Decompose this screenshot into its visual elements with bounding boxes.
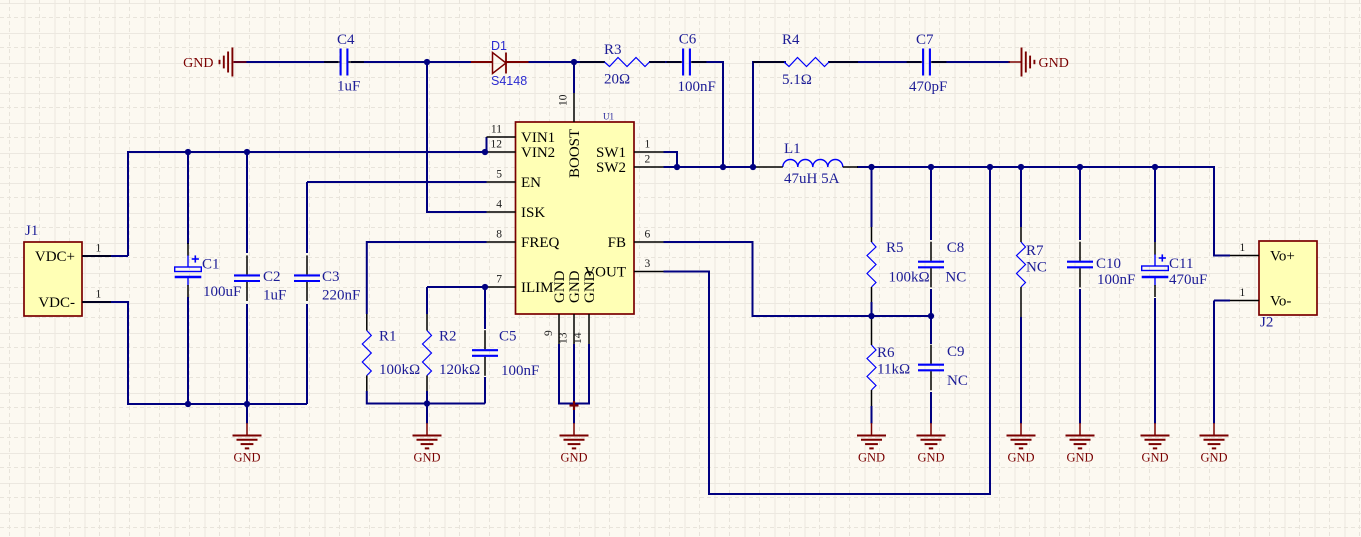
svg-text:R3: R3 bbox=[604, 42, 622, 58]
svg-text:GND: GND bbox=[560, 451, 587, 465]
svg-text:GND: GND bbox=[582, 270, 598, 303]
svg-text:ILIM: ILIM bbox=[521, 280, 554, 296]
svg-text:10: 10 bbox=[558, 94, 570, 106]
svg-text:C10: C10 bbox=[1096, 256, 1121, 272]
svg-text:7: 7 bbox=[496, 274, 502, 286]
svg-text:13: 13 bbox=[557, 332, 569, 344]
svg-text:4: 4 bbox=[496, 199, 502, 211]
svg-text:3: 3 bbox=[645, 258, 651, 270]
svg-text:11: 11 bbox=[491, 124, 502, 136]
svg-text:VIN1: VIN1 bbox=[521, 130, 555, 146]
svg-text:1: 1 bbox=[96, 243, 102, 255]
svg-text:100kΩ: 100kΩ bbox=[889, 270, 930, 286]
svg-text:R5: R5 bbox=[886, 240, 904, 256]
svg-text:120kΩ: 120kΩ bbox=[439, 362, 480, 378]
svg-text:C11: C11 bbox=[1169, 256, 1193, 272]
svg-text:R1: R1 bbox=[379, 329, 397, 345]
svg-text:GND: GND bbox=[552, 270, 568, 303]
svg-text:FB: FB bbox=[608, 235, 626, 251]
svg-text:EN: EN bbox=[521, 175, 541, 191]
svg-text:R2: R2 bbox=[439, 329, 457, 345]
svg-text:SW1: SW1 bbox=[596, 145, 626, 161]
svg-text:GND: GND bbox=[1007, 451, 1034, 465]
svg-text:100uF: 100uF bbox=[203, 284, 241, 300]
svg-text:GND: GND bbox=[233, 451, 260, 465]
svg-text:9: 9 bbox=[543, 330, 555, 336]
svg-text:C3: C3 bbox=[322, 269, 340, 285]
svg-text:GND: GND bbox=[1039, 56, 1069, 71]
svg-text:12: 12 bbox=[491, 139, 503, 151]
svg-text:C9: C9 bbox=[947, 344, 965, 360]
svg-text:470pF: 470pF bbox=[909, 79, 947, 95]
svg-text:1: 1 bbox=[645, 139, 651, 151]
svg-text:220nF: 220nF bbox=[322, 288, 360, 304]
svg-text:U1: U1 bbox=[603, 112, 614, 122]
svg-text:100nF: 100nF bbox=[678, 79, 716, 95]
svg-text:5: 5 bbox=[496, 169, 502, 181]
svg-text:L1: L1 bbox=[784, 141, 801, 157]
svg-text:GND: GND bbox=[858, 451, 885, 465]
svg-text:J2: J2 bbox=[1260, 315, 1273, 331]
svg-text:Vo+: Vo+ bbox=[1270, 249, 1295, 265]
svg-text:BOOST: BOOST bbox=[567, 129, 583, 178]
svg-text:C6: C6 bbox=[679, 32, 697, 48]
svg-text:6: 6 bbox=[645, 229, 651, 241]
svg-text:GND: GND bbox=[413, 451, 440, 465]
svg-text:C8: C8 bbox=[947, 240, 965, 256]
svg-text:GND: GND bbox=[183, 56, 213, 71]
svg-text:GND: GND bbox=[917, 451, 944, 465]
svg-text:SW2: SW2 bbox=[596, 160, 626, 176]
svg-text:NC: NC bbox=[945, 270, 966, 286]
svg-text:GND: GND bbox=[1200, 451, 1227, 465]
svg-text:11kΩ: 11kΩ bbox=[877, 362, 910, 378]
svg-text:C4: C4 bbox=[337, 32, 355, 48]
svg-text:GND: GND bbox=[567, 270, 583, 303]
svg-text:GND: GND bbox=[1066, 451, 1093, 465]
svg-text:ISK: ISK bbox=[521, 205, 545, 221]
svg-text:J1: J1 bbox=[25, 223, 38, 239]
svg-text:C7: C7 bbox=[916, 32, 934, 48]
svg-text:C5: C5 bbox=[499, 329, 517, 345]
svg-text:1uF: 1uF bbox=[263, 288, 286, 304]
svg-text:GND: GND bbox=[1141, 451, 1168, 465]
svg-text:100nF: 100nF bbox=[1097, 272, 1135, 288]
svg-text:C1: C1 bbox=[202, 257, 220, 273]
svg-text:100kΩ: 100kΩ bbox=[379, 362, 420, 378]
svg-text:100nF: 100nF bbox=[501, 363, 539, 379]
svg-text:D1: D1 bbox=[491, 39, 507, 53]
svg-text:C2: C2 bbox=[263, 269, 281, 285]
svg-text:470uF: 470uF bbox=[1169, 272, 1207, 288]
svg-text:1uF: 1uF bbox=[337, 79, 360, 95]
svg-text:2: 2 bbox=[645, 154, 651, 166]
svg-text:R7: R7 bbox=[1026, 243, 1044, 259]
svg-text:47uH 5A: 47uH 5A bbox=[784, 171, 840, 187]
svg-text:S4148: S4148 bbox=[491, 74, 527, 88]
svg-text:5.1Ω: 5.1Ω bbox=[782, 72, 812, 88]
svg-text:Vo-: Vo- bbox=[1270, 294, 1291, 310]
svg-text:NC: NC bbox=[947, 373, 968, 389]
svg-text:R6: R6 bbox=[877, 345, 895, 361]
svg-text:1: 1 bbox=[1240, 287, 1246, 299]
svg-text:R4: R4 bbox=[782, 32, 800, 48]
svg-text:VDC-: VDC- bbox=[38, 295, 75, 311]
svg-text:8: 8 bbox=[496, 229, 502, 241]
svg-text:FREQ: FREQ bbox=[521, 235, 560, 251]
svg-text:VDC+: VDC+ bbox=[35, 249, 75, 265]
svg-text:14: 14 bbox=[572, 332, 584, 344]
svg-text:1: 1 bbox=[96, 289, 102, 301]
svg-text:1: 1 bbox=[1240, 242, 1246, 254]
svg-text:VIN2: VIN2 bbox=[521, 145, 555, 161]
svg-text:NC: NC bbox=[1026, 260, 1047, 276]
svg-text:20Ω: 20Ω bbox=[604, 72, 630, 88]
